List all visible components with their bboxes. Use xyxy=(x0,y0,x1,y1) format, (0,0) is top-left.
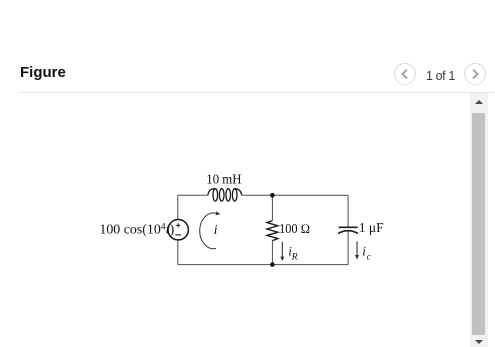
current arrow iR xyxy=(280,242,284,262)
wire top-left segment xyxy=(178,194,208,196)
resistor R1 100 ohm xyxy=(267,221,278,241)
label 100 ohm xyxy=(279,222,310,236)
svg-text:R: R xyxy=(291,252,298,262)
wire right vertical upper xyxy=(347,195,349,226)
svg-text:100 Ω: 100 Ω xyxy=(279,222,310,236)
label iR xyxy=(288,244,298,263)
node B (bottom junction dot) xyxy=(270,262,275,267)
capacitor C1 1 uF xyxy=(338,227,358,233)
label 10 mH xyxy=(206,171,241,186)
wire middle branch lower xyxy=(271,241,273,265)
wire top-right segment xyxy=(242,194,348,196)
loop current arrow i xyxy=(200,211,221,249)
label 1 uF xyxy=(359,220,384,235)
svg-text:c: c xyxy=(367,252,372,262)
voltage source Vs xyxy=(168,220,188,240)
wire left vertical upper xyxy=(177,195,179,219)
node A (top junction dot) xyxy=(270,193,275,198)
svg-text:i: i xyxy=(214,222,218,237)
wire middle branch upper xyxy=(271,195,273,221)
svg-text:100 cos(104t): 100 cos(104t) xyxy=(99,222,174,238)
label ic xyxy=(362,244,371,263)
wire right vertical lower xyxy=(347,231,349,264)
label i (loop current) xyxy=(214,222,218,237)
scrollbar xyxy=(470,93,488,347)
wire bottom xyxy=(178,264,348,266)
inductor L1 10 mH xyxy=(208,189,242,201)
wire left vertical lower xyxy=(177,240,179,265)
svg-text:1 μF: 1 μF xyxy=(359,220,384,235)
svg-text:10 mH: 10 mH xyxy=(206,171,241,186)
label 100 cos(10^4 t) xyxy=(99,222,174,238)
current arrow ic xyxy=(355,241,359,259)
